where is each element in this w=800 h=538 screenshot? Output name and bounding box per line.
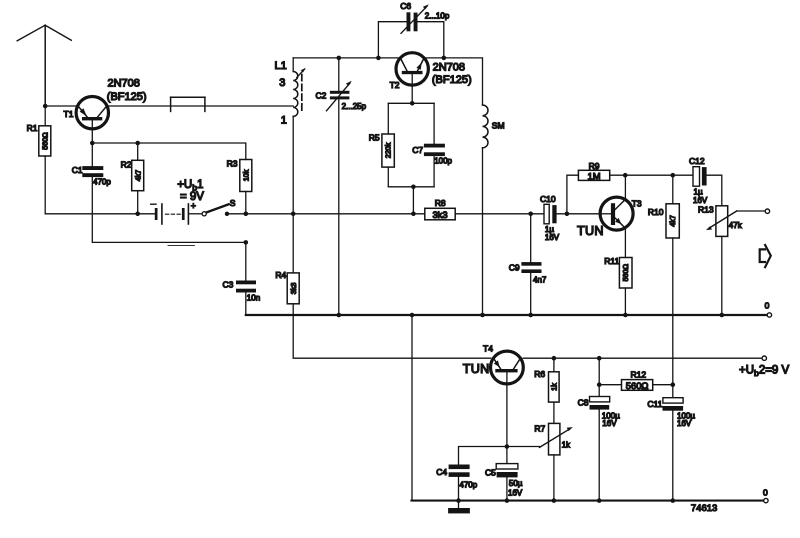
wire C4 bottom to bus — [458, 477, 460, 501]
wire C10 to T3 base — [557, 213, 601, 215]
wire bottom bar to battery rail — [412, 187, 414, 214]
svg-text:(BF125): (BF125) — [107, 91, 147, 103]
svg-text:2N708: 2N708 — [433, 61, 465, 73]
node C5 at bottom bus — [505, 498, 510, 503]
svg-text:1k: 1k — [549, 383, 558, 391]
capacitor C12 (electrolytic) — [689, 156, 708, 205]
svg-text:(BF125): (BF125) — [432, 74, 472, 86]
node C9 top — [528, 212, 533, 217]
node T2 base junction — [410, 101, 415, 106]
svg-text:470p: 470p — [459, 481, 477, 490]
wire R8 to C10 — [455, 213, 544, 215]
node switch right contact — [225, 212, 229, 216]
wire C8 bottom to bus — [598, 410, 600, 501]
svg-text:L1: L1 — [275, 60, 287, 72]
svg-text:4k7: 4k7 — [668, 215, 677, 227]
svg-text:R9: R9 — [589, 161, 600, 171]
svg-text:560Ω: 560Ω — [621, 263, 630, 281]
node C11 at bottom bus — [671, 498, 676, 503]
svg-text:R10: R10 — [648, 207, 664, 217]
wire C3 bottom to bus — [245, 293, 247, 316]
wire R5/C7 bottom bar — [388, 186, 434, 188]
coil L1 — [275, 58, 306, 127]
wire R2 top lead — [137, 143, 139, 160]
node R13 at bus — [720, 313, 725, 318]
svg-text:S: S — [230, 198, 236, 208]
svg-text:SM: SM — [492, 120, 505, 130]
wire wiper rail y446 — [459, 447, 540, 465]
wire R2 bottom lead — [137, 191, 139, 214]
svg-text:4k7: 4k7 — [133, 170, 142, 182]
node ground link at bus — [410, 313, 415, 318]
node R6 top — [552, 356, 557, 361]
svg-text:74613: 74613 — [691, 503, 717, 514]
wire battery to switch — [189, 213, 202, 215]
svg-text:T3: T3 — [632, 198, 642, 208]
resistor R9 — [578, 161, 609, 181]
capacitor C1 — [72, 143, 112, 187]
svg-text:TUN: TUN — [463, 362, 490, 376]
wire R5/C7 top bar — [388, 102, 434, 104]
svg-text:R5: R5 — [369, 132, 380, 142]
wire C2 bottom to bus — [338, 99, 340, 315]
resistor R8 — [425, 198, 455, 220]
svg-text:50µ: 50µ — [509, 479, 523, 488]
unlabeled coupling box on collector wire — [171, 97, 205, 111]
wire +Ub2 rail right of T4 — [523, 357, 762, 359]
node C6 right — [442, 56, 447, 61]
terminal +Ub2 — [762, 356, 766, 360]
svg-text:16V: 16V — [508, 489, 523, 498]
wire R3 bottom lead — [245, 192, 247, 214]
svg-text:3k3: 3k3 — [432, 209, 447, 220]
wire R4 top lead — [292, 214, 294, 273]
svg-text:R13: R13 — [698, 204, 714, 214]
capacitor C6 (variable) — [400, 1, 450, 33]
capacitor C3 — [223, 242, 261, 302]
wire C7 bottom lead — [433, 156, 435, 187]
svg-text:47k: 47k — [729, 221, 743, 230]
wire C11 bottom to bus — [672, 411, 674, 501]
node C4 at bottom bus — [456, 498, 461, 503]
wire T4 base lead down — [506, 372, 508, 446]
svg-text:R1: R1 — [27, 123, 38, 133]
wire R9 left loop — [567, 175, 579, 214]
potentiometer R13 — [698, 204, 743, 236]
svg-text:C12: C12 — [689, 156, 705, 166]
capacitor C4 — [436, 465, 478, 490]
svg-text:2...25p: 2...25p — [342, 102, 367, 111]
svg-text:100p: 100p — [434, 157, 452, 166]
svg-text:R2: R2 — [121, 159, 132, 169]
resistor R1 — [27, 123, 51, 156]
svg-text:R7: R7 — [534, 424, 545, 434]
wire R5 bottom lead — [387, 167, 389, 187]
node R10 top at R9 rail — [671, 173, 676, 178]
node antenna/T1 junction — [43, 104, 48, 109]
terminal output — [765, 209, 769, 213]
node T3 collector at R9 rail — [623, 173, 628, 178]
node C2 at bus — [337, 313, 342, 318]
wire ground link vertical — [411, 315, 413, 501]
svg-text:1k: 1k — [562, 440, 571, 449]
node R9 left at base wire — [565, 212, 570, 217]
svg-text:T4: T4 — [483, 343, 493, 353]
wire switch to R8 — [227, 213, 425, 215]
node R12 right — [671, 382, 676, 387]
wire R4 bottom to +Ub2 rail — [293, 304, 490, 358]
svg-text:C11: C11 — [647, 399, 662, 409]
svg-text:R4: R4 — [275, 270, 286, 280]
svg-text:TUN: TUN — [577, 224, 604, 238]
wire R1 top lead — [44, 106, 46, 126]
wire C9 bottom to bus — [530, 273, 532, 315]
transistor T3 — [577, 197, 642, 238]
ground bus 0 (bottom) — [412, 500, 764, 502]
wire R13 wiper to output terminal — [737, 210, 766, 212]
transistor T2 — [390, 53, 472, 90]
output arrow symbol — [760, 245, 771, 267]
wire R10 bottom long lead to R12/C11 — [672, 238, 674, 398]
wire R6 to R7 — [553, 402, 555, 423]
node R2 top — [135, 141, 140, 146]
svg-text:16V: 16V — [677, 419, 692, 428]
wire T3 collector lead — [624, 175, 626, 199]
transistor T1 — [64, 78, 147, 129]
svg-text:C2: C2 — [316, 90, 327, 100]
svg-text:C6: C6 — [400, 1, 411, 11]
node R7 at bottom bus — [552, 498, 557, 503]
svg-text:R8: R8 — [435, 198, 446, 208]
terminal 0 upper — [767, 313, 771, 317]
node T1 base junction — [90, 141, 95, 146]
svg-text:10n: 10n — [247, 293, 260, 302]
wire T1 base lead — [91, 120, 93, 143]
svg-text:C1: C1 — [72, 165, 83, 175]
wire R12 left lead — [599, 384, 621, 386]
capacitor C10 (electrolytic) — [540, 194, 560, 242]
resistor R10 — [648, 204, 679, 238]
svg-text:2...10p: 2...10p — [425, 12, 450, 21]
coil SM — [483, 105, 505, 148]
svg-text:C4: C4 — [436, 467, 447, 477]
node L1/R4 on battery rail — [291, 212, 296, 217]
svg-text:0: 0 — [765, 300, 770, 310]
svg-text:470p: 470p — [93, 178, 111, 187]
node C9 at bus — [528, 313, 533, 318]
svg-text:16V: 16V — [602, 419, 617, 428]
wire R12 right lead — [653, 384, 673, 386]
resistor R11 — [604, 256, 632, 288]
wire T2 base lead — [411, 74, 413, 103]
wire R10 top lead — [672, 175, 674, 204]
capacitor C9 — [509, 214, 547, 285]
svg-text:T2: T2 — [390, 80, 400, 90]
wire C5 bottom to bus — [506, 477, 508, 500]
wire battery rail left — [45, 213, 155, 215]
resistor R12 — [622, 369, 653, 391]
wire C12 to R13 top — [707, 175, 722, 206]
transistor T4 — [463, 343, 524, 384]
wire L1 bottom to battery rail and R4 — [292, 116, 294, 213]
svg-text:0: 0 — [763, 487, 768, 497]
node R12 left — [597, 382, 602, 387]
svg-text:C3: C3 — [223, 279, 234, 289]
wire R9 right to C12 — [610, 174, 693, 176]
svg-text:R11: R11 — [604, 256, 619, 266]
node R11 at bus — [623, 313, 628, 318]
svg-text:10k: 10k — [241, 169, 250, 181]
node C8 at bottom bus — [597, 498, 602, 503]
wire antenna to T1 emitter — [45, 105, 77, 107]
svg-text:2N708: 2N708 — [108, 78, 140, 90]
svg-text:R6: R6 — [534, 369, 545, 379]
wire top rail y58 — [293, 57, 400, 59]
wire R13 bottom to bus — [721, 236, 723, 315]
svg-text:560Ω: 560Ω — [40, 132, 49, 150]
svg-text:= 9V: = 9V — [180, 191, 204, 203]
wire C6 left loop — [378, 22, 406, 58]
svg-text:C7: C7 — [412, 145, 423, 155]
wire R7 bottom to bottom bus — [553, 455, 555, 501]
node C2 top — [337, 56, 342, 61]
antenna — [17, 25, 71, 106]
svg-text:C10: C10 — [540, 194, 556, 204]
node at battery rail — [411, 212, 416, 217]
capacitor C5 (electrolytic) — [485, 447, 523, 498]
wire SM bottom to bus — [482, 148, 484, 315]
wire C1 bottom to y242 rail — [92, 177, 246, 242]
svg-text:T1: T1 — [64, 109, 74, 119]
ground symbol — [448, 501, 470, 514]
resistor R6 — [534, 369, 559, 402]
node SM at bus — [480, 313, 485, 318]
svg-text:1: 1 — [281, 115, 287, 127]
svg-text:C9: C9 — [509, 263, 520, 273]
wire R1 bottom lead — [44, 156, 46, 214]
ground bus 0 (upper) — [246, 314, 768, 316]
capacitor C7 — [412, 103, 452, 165]
node R5/C7 bottom — [411, 185, 416, 190]
node C8 column top — [597, 356, 602, 361]
resistor R3 — [227, 159, 252, 192]
wire base rail y143 to R3 — [92, 143, 246, 160]
wire T3 emitter to R11 — [624, 228, 626, 257]
wire C6 right loop — [418, 22, 444, 58]
svg-text:16V: 16V — [545, 233, 560, 242]
node C6 left — [376, 56, 381, 61]
svg-text:+Ub2=9 V: +Ub2=9 V — [739, 364, 790, 377]
node y242 junction — [244, 240, 249, 245]
capacitor C2 (variable) — [316, 58, 367, 111]
resistor R5 — [369, 132, 395, 167]
potentiometer R7 — [534, 423, 572, 455]
battery Ub1 — [151, 179, 205, 245]
terminal 0 bottom — [764, 498, 768, 502]
node R2 bottom — [135, 212, 140, 217]
svg-text:220k: 220k — [384, 142, 393, 158]
wire T2 collector rail to SM — [424, 58, 483, 105]
svg-text:3k3: 3k3 — [289, 283, 298, 295]
capacitor C8 (electrolytic) — [578, 397, 621, 428]
svg-text:560Ω: 560Ω — [626, 380, 649, 391]
wire T1 collector to L1 tap — [107, 105, 293, 107]
svg-text:4n7: 4n7 — [533, 275, 547, 284]
capacitor C11 (electrolytic) — [647, 398, 695, 429]
node R3/switch junction — [244, 212, 249, 217]
wire R11 bottom to bus — [624, 288, 626, 315]
svg-text:C8: C8 — [578, 397, 589, 407]
wire R5 top lead — [387, 103, 389, 134]
resistor R2 — [121, 159, 144, 190]
svg-text:3: 3 — [279, 77, 285, 89]
svg-text:1M: 1M — [587, 170, 600, 181]
svg-text:C5: C5 — [485, 468, 496, 478]
wire C8 column — [598, 358, 600, 396]
svg-text:R12: R12 — [631, 369, 647, 379]
resistor R4 — [275, 270, 299, 304]
node T4 base / R7 wiper rail — [505, 444, 510, 449]
wire R6 top lead — [553, 358, 555, 372]
switch S — [202, 198, 236, 216]
svg-text:R3: R3 — [227, 159, 238, 169]
